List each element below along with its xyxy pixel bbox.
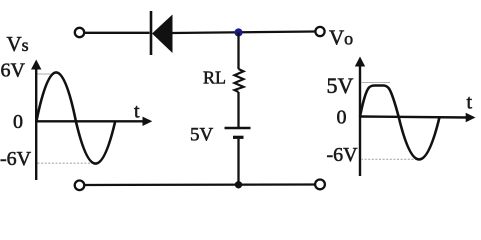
left plot y-axis [35,66,37,180]
wire battery to bottom rail [237,139,239,185]
svg-text:RL: RL [203,68,226,88]
Vs sine wave [36,72,115,163]
svg-text:Vo: Vo [329,26,353,50]
svg-text:0: 0 [337,107,347,129]
wire node to resistor [237,33,239,70]
svg-text:t: t [467,92,473,114]
left plot x-axis arrowhead [143,117,153,126]
battery V1 negative plate (short thick) [233,136,244,139]
bottom rail wire [85,183,315,186]
bottom right terminal (open circle) [315,180,325,190]
right plot y-axis arrowhead [355,57,365,67]
input terminal (top left open circle) [75,28,84,37]
svg-text:5V: 5V [327,73,354,98]
resistor RL zigzag [235,69,244,92]
6V level tick (gray) [38,73,51,75]
wire diode to output terminal [173,32,316,34]
output terminal Vo (open circle) [315,27,324,36]
-6V dotted level line (left plot) [38,162,96,164]
svg-text:t: t [134,101,140,123]
5V level tick (gray, right plot) [361,82,390,84]
svg-text:5V: 5V [190,125,214,146]
svg-text:-6V: -6V [0,148,32,170]
bottom left terminal (open circle) [75,181,85,191]
left plot y-axis arrowhead [31,60,41,70]
diode D1 cathode bar [150,11,153,55]
Vo clipped sine wave [360,86,440,160]
right plot x-axis [360,117,468,118]
right plot x-axis arrowhead [466,113,476,122]
wire input terminal to diode [85,32,150,34]
wire resistor to battery [237,92,239,127]
-6V dotted level line (right plot) [361,158,420,160]
junction dot on bottom rail [235,181,242,188]
svg-text:-6V: -6V [327,144,359,166]
svg-text:0: 0 [13,111,23,133]
node A (blue junction dot) [234,28,242,36]
left plot x-axis [36,120,144,122]
diode D1 triangle (anode, pointing left) [152,15,173,54]
svg-text:Vs: Vs [7,32,29,56]
right plot y-axis [359,63,361,176]
battery V1 positive plate (long) [225,127,251,130]
svg-text:6V: 6V [1,60,26,82]
